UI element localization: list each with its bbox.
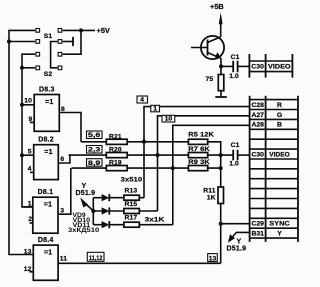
- resistor R15: [124, 209, 139, 214]
- wire D8.2 pin6 output to row B: [58, 155, 70, 163]
- terminal S1 right 2: [58, 40, 62, 44]
- svg-text:D8.1: D8.1: [38, 189, 54, 196]
- svg-text:C30: C30: [251, 63, 264, 70]
- svg-text:C1: C1: [231, 54, 240, 61]
- arrow from D51.9 to anode bus: [85, 203, 94, 211]
- svg-text:R17: R17: [125, 215, 138, 222]
- capacitor C1 (lower): [233, 150, 237, 161]
- wire net 10 vertical: [173, 125, 250, 224]
- terminal S1 right 1: [58, 29, 62, 33]
- svg-text:10: 10: [24, 98, 32, 105]
- diode VD11: [102, 221, 110, 228]
- svg-text:3хКД510: 3хКД510: [68, 227, 100, 234]
- resistor R17: [124, 222, 139, 227]
- svg-text:13: 13: [209, 255, 217, 262]
- svg-text:C28: C28: [251, 102, 264, 109]
- wire sync node to C29 row: [221, 223, 250, 225]
- svg-text:R20: R20: [109, 147, 122, 154]
- resistor R9: [188, 166, 207, 171]
- wire D8.1 pin2 stub: [30, 222, 33, 224]
- wire R17 to net10: [139, 224, 173, 226]
- svg-text:3: 3: [60, 207, 64, 214]
- diode VD10: [102, 207, 110, 214]
- svg-text:D51.9: D51.9: [76, 190, 96, 197]
- svg-text:D8.2: D8.2: [38, 137, 54, 144]
- wire D8.2 pin4 stub: [30, 171, 34, 173]
- svg-text:D51.9: D51.9: [227, 245, 247, 252]
- net label box 5,6: [87, 131, 103, 139]
- svg-text:VIDEO: VIDEO: [269, 151, 290, 158]
- wire net 11,12 bottom: [58, 262, 221, 264]
- wire bracket S1-S2 right link: [51, 42, 58, 68]
- svg-text:12: 12: [24, 266, 32, 273]
- wire 75 to ground: [220, 91, 222, 97]
- wire row A net: [81, 142, 221, 155]
- wire D8.3 pin8 output to row A: [59, 113, 81, 142]
- capacitor C1 (top): [233, 61, 237, 72]
- junction net4 row A: [142, 140, 146, 144]
- power +5V arrow: [220, 22, 222, 35]
- slider contact bar S1: [72, 37, 74, 46]
- wire bus x9 down to D8.4 pin13: [9, 42, 33, 255]
- svg-text:VIDEO: VIDEO: [268, 63, 291, 70]
- wire R13 to net4: [139, 197, 144, 199]
- wire diode anode bus: [92, 198, 94, 225]
- svg-text:11,12: 11,12: [89, 255, 103, 262]
- svg-text:C30: C30: [251, 151, 264, 158]
- svg-text:=1: =1: [45, 99, 53, 106]
- net label box 13: [208, 254, 218, 262]
- svg-text:75: 75: [206, 76, 214, 83]
- resistor R11: [218, 187, 224, 204]
- terminal S2 left 1: [36, 52, 40, 56]
- net label box 11,12: [87, 252, 104, 261]
- XOR gate D8.4: [33, 245, 58, 280]
- wire net 1 vertical: [158, 116, 250, 211]
- svg-text:1: 1: [153, 106, 157, 113]
- svg-text:Y: Y: [237, 238, 242, 245]
- wire S1 right1 to +5V: [63, 29, 95, 31]
- svg-text:+5В: +5В: [210, 2, 224, 11]
- wire D8.3 pin10: [22, 104, 34, 106]
- svg-text:Y: Y: [277, 231, 282, 238]
- svg-text:R11: R11: [203, 187, 216, 194]
- svg-text:10: 10: [165, 116, 173, 123]
- svg-text:R: R: [277, 102, 282, 109]
- svg-text:9: 9: [29, 116, 33, 123]
- wire summing node vertical: [220, 155, 222, 263]
- svg-text:6: 6: [60, 156, 64, 163]
- svg-text:D8.3: D8.3: [39, 86, 55, 93]
- svg-text:A27: A27: [251, 112, 264, 119]
- terminal S2 right 2: [58, 66, 62, 70]
- svg-text:1.0: 1.0: [229, 161, 239, 168]
- svg-text:D8.4: D8.4: [38, 237, 54, 244]
- wire D8.4 pin12 stub: [30, 271, 34, 273]
- ground: [215, 96, 227, 98]
- wire D8.3 pin9 stub: [30, 121, 34, 123]
- resistor R20: [106, 153, 127, 158]
- svg-text:13: 13: [24, 248, 32, 255]
- junction +5V node: [79, 28, 83, 32]
- svg-text:1: 1: [28, 200, 32, 207]
- wire S2 pole2 left: [22, 67, 35, 69]
- resistor R5: [188, 139, 207, 144]
- svg-text:R19: R19: [109, 160, 122, 167]
- resistor R7: [188, 153, 207, 158]
- wire C1 to C30 plug: [238, 65, 249, 67]
- junction net10 row C: [171, 166, 175, 170]
- junction emitter node: [219, 64, 223, 68]
- wire D8.1 pin1: [23, 206, 33, 208]
- svg-text:Y: Y: [82, 183, 87, 190]
- terminal S1 left 2: [36, 40, 40, 44]
- resistor R19: [106, 166, 127, 171]
- resistor R (75) emitter load: [220, 66, 222, 74]
- junction sync node: [219, 222, 223, 226]
- junction bus x23 row4: [20, 66, 24, 70]
- off-page arrow to D51.9 (bottom right): [232, 232, 250, 238]
- svg-text:S2: S2: [44, 71, 53, 78]
- svg-text:C1: C1: [231, 142, 240, 149]
- svg-text:11: 11: [60, 256, 68, 263]
- connector XS1 table: [250, 96, 298, 242]
- transistor VT1: [191, 35, 224, 67]
- svg-text:3x510: 3x510: [121, 177, 143, 184]
- svg-text:S1: S1: [44, 33, 53, 40]
- terminal S1 left 1: [36, 29, 40, 33]
- wire C1 lower to C30 row: [238, 154, 249, 156]
- XOR gate D8.2: [34, 145, 59, 180]
- svg-text:B: B: [277, 122, 282, 129]
- wire S1 pole2 left: [9, 41, 35, 43]
- svg-text:3x1K: 3x1K: [145, 217, 165, 224]
- wire bus x23 down to D8.1 pin1: [22, 68, 33, 207]
- wire S2 right1 up to +5V node: [63, 31, 81, 54]
- wire row B net: [69, 154, 234, 156]
- svg-text:4: 4: [140, 97, 144, 104]
- junction summing node row B: [219, 153, 223, 157]
- svg-text:=1: =1: [44, 149, 52, 156]
- wire D8.2 pin5: [22, 154, 34, 156]
- junction anode bus VD10: [91, 209, 95, 213]
- svg-text:R9 3K: R9 3K: [188, 159, 210, 166]
- svg-text:5,6: 5,6: [88, 132, 101, 139]
- svg-text:A28: A28: [251, 122, 264, 129]
- svg-text:R21: R21: [109, 133, 122, 140]
- svg-text:C29: C29: [251, 221, 264, 228]
- svg-text:2: 2: [28, 216, 32, 223]
- svg-text:R5 12K: R5 12K: [188, 132, 214, 139]
- svg-text:G: G: [277, 112, 282, 119]
- svg-text:2,3: 2,3: [88, 147, 101, 154]
- wire S1 right2 contact stub: [63, 41, 73, 43]
- svg-text:=1: =1: [44, 202, 52, 209]
- junction bus x9 row2: [7, 40, 11, 44]
- wire R15 to net1: [139, 210, 157, 212]
- terminal S2 left 2: [36, 66, 40, 70]
- svg-text:+5V: +5V: [97, 26, 110, 35]
- wire D8.1 pin3 output to row C: [58, 168, 71, 214]
- resistor R21: [106, 139, 127, 144]
- svg-text:R7 6K: R7 6K: [188, 146, 210, 153]
- wire emitter to C1: [221, 65, 233, 67]
- net label box 4: [137, 96, 148, 103]
- wire S1 pole1 left to bus: [9, 30, 35, 41]
- svg-text:R13: R13: [125, 188, 138, 195]
- terminal S2 right 1: [58, 52, 62, 56]
- svg-text:4: 4: [28, 165, 32, 172]
- svg-text:=1: =1: [44, 249, 52, 256]
- net label box 2,3: [87, 146, 103, 154]
- net label box 8,9: [87, 159, 103, 167]
- junction summing node row C: [219, 166, 223, 170]
- junction pin10 bus: [20, 103, 24, 107]
- junction pin5 bus: [20, 153, 24, 157]
- junction net1 row B: [156, 153, 160, 157]
- svg-text:1K: 1K: [207, 194, 216, 201]
- svg-text:B31: B31: [251, 231, 264, 238]
- wire S2 pole1 left to bus23: [22, 54, 35, 68]
- svg-text:8,9: 8,9: [88, 160, 101, 167]
- net label box 1: [151, 105, 160, 112]
- connector plug C30/VIDEO (top): [249, 54, 292, 78]
- net label box 10: [162, 115, 175, 122]
- svg-text:R15: R15: [125, 201, 138, 208]
- XOR gate D8.3: [34, 95, 59, 132]
- svg-text:SYNC: SYNC: [269, 221, 290, 228]
- diode VD9: [102, 194, 110, 201]
- wire row C net: [72, 167, 222, 169]
- XOR gate D8.1: [33, 197, 58, 233]
- resistor R13: [124, 195, 139, 200]
- svg-text:1.0: 1.0: [229, 73, 239, 80]
- svg-text:5: 5: [28, 149, 32, 156]
- wire net 4 vertical: [144, 107, 250, 198]
